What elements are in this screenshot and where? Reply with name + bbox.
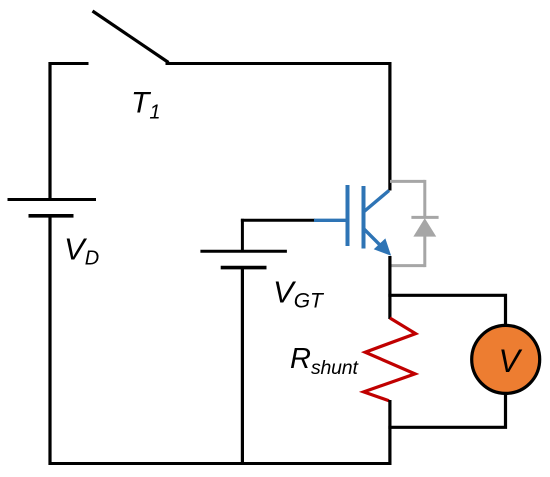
battery VGT short plate (-) [221,266,267,270]
diode cathode bar [411,216,438,219]
IGBT gate lead [314,219,346,222]
svg-text:V: V [499,343,523,379]
wire: left rail upper (switch to battery VD) [48,62,51,200]
wire: left contact of switch [50,62,89,65]
diode D1 (gray freewheeling diode) [390,180,439,267]
wire: top rail from switch to collector corner [166,62,390,65]
IGBT body bar [362,186,366,249]
IGBT emitter arrowhead [376,240,390,254]
wire: left rail lower (battery VD to bottom rail) [48,216,51,465]
switch T1 blade (open) [93,11,169,63]
battery VD short plate (-) [29,214,74,218]
voltmeter V (orange circle) [472,325,540,393]
wire: VGT positive lead vertical [241,219,244,251]
wire: diode bottom connector to emitter [390,264,425,267]
wire: voltmeter top branch [388,295,505,327]
battery VGT long plate (+) [200,250,287,253]
wire: emitter down to shunt [388,256,391,319]
battery VD long plate (+) [8,198,97,201]
wire: voltmeter bottom branch [388,392,505,428]
IGBT emitter stroke [364,229,382,247]
diode leg bottom [423,236,426,267]
wire: shunt bottom to bottom rail [388,400,391,465]
wire: VGT negative lead down to bottom rail [241,268,244,465]
wire: VGT positive lead horizontal to gate [241,219,315,222]
diode triangle (anode, pointing up) [415,220,435,236]
IGBT gate bar [346,185,350,246]
wire: diode top connector to collector [390,180,425,183]
wire: bottom rail [49,462,392,465]
IGBT collector stroke [364,191,390,213]
wire: collector drop from top rail [388,62,391,191]
IGBT U1 (blue) [314,185,390,254]
resistor Rshunt zigzag [364,318,416,401]
diode leg top [423,180,426,217]
